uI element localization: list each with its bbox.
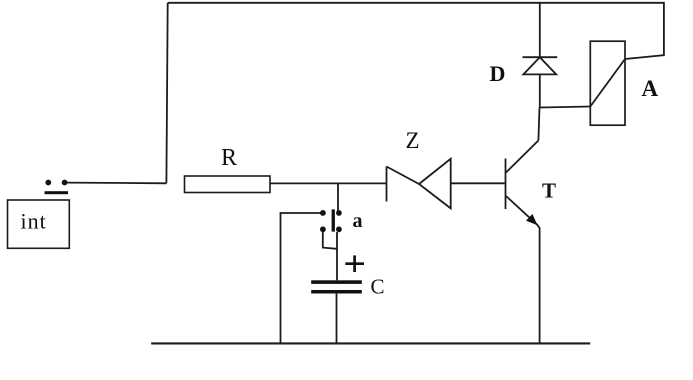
svg-text:A: A bbox=[642, 76, 659, 101]
svg-text:T: T bbox=[542, 179, 556, 203]
svg-text:C: C bbox=[371, 275, 385, 299]
svg-text:int: int bbox=[21, 208, 47, 233]
svg-text:a: a bbox=[353, 210, 363, 232]
svg-text:Z: Z bbox=[406, 128, 420, 153]
svg-text:R: R bbox=[221, 145, 237, 171]
svg-text:D: D bbox=[490, 61, 506, 86]
